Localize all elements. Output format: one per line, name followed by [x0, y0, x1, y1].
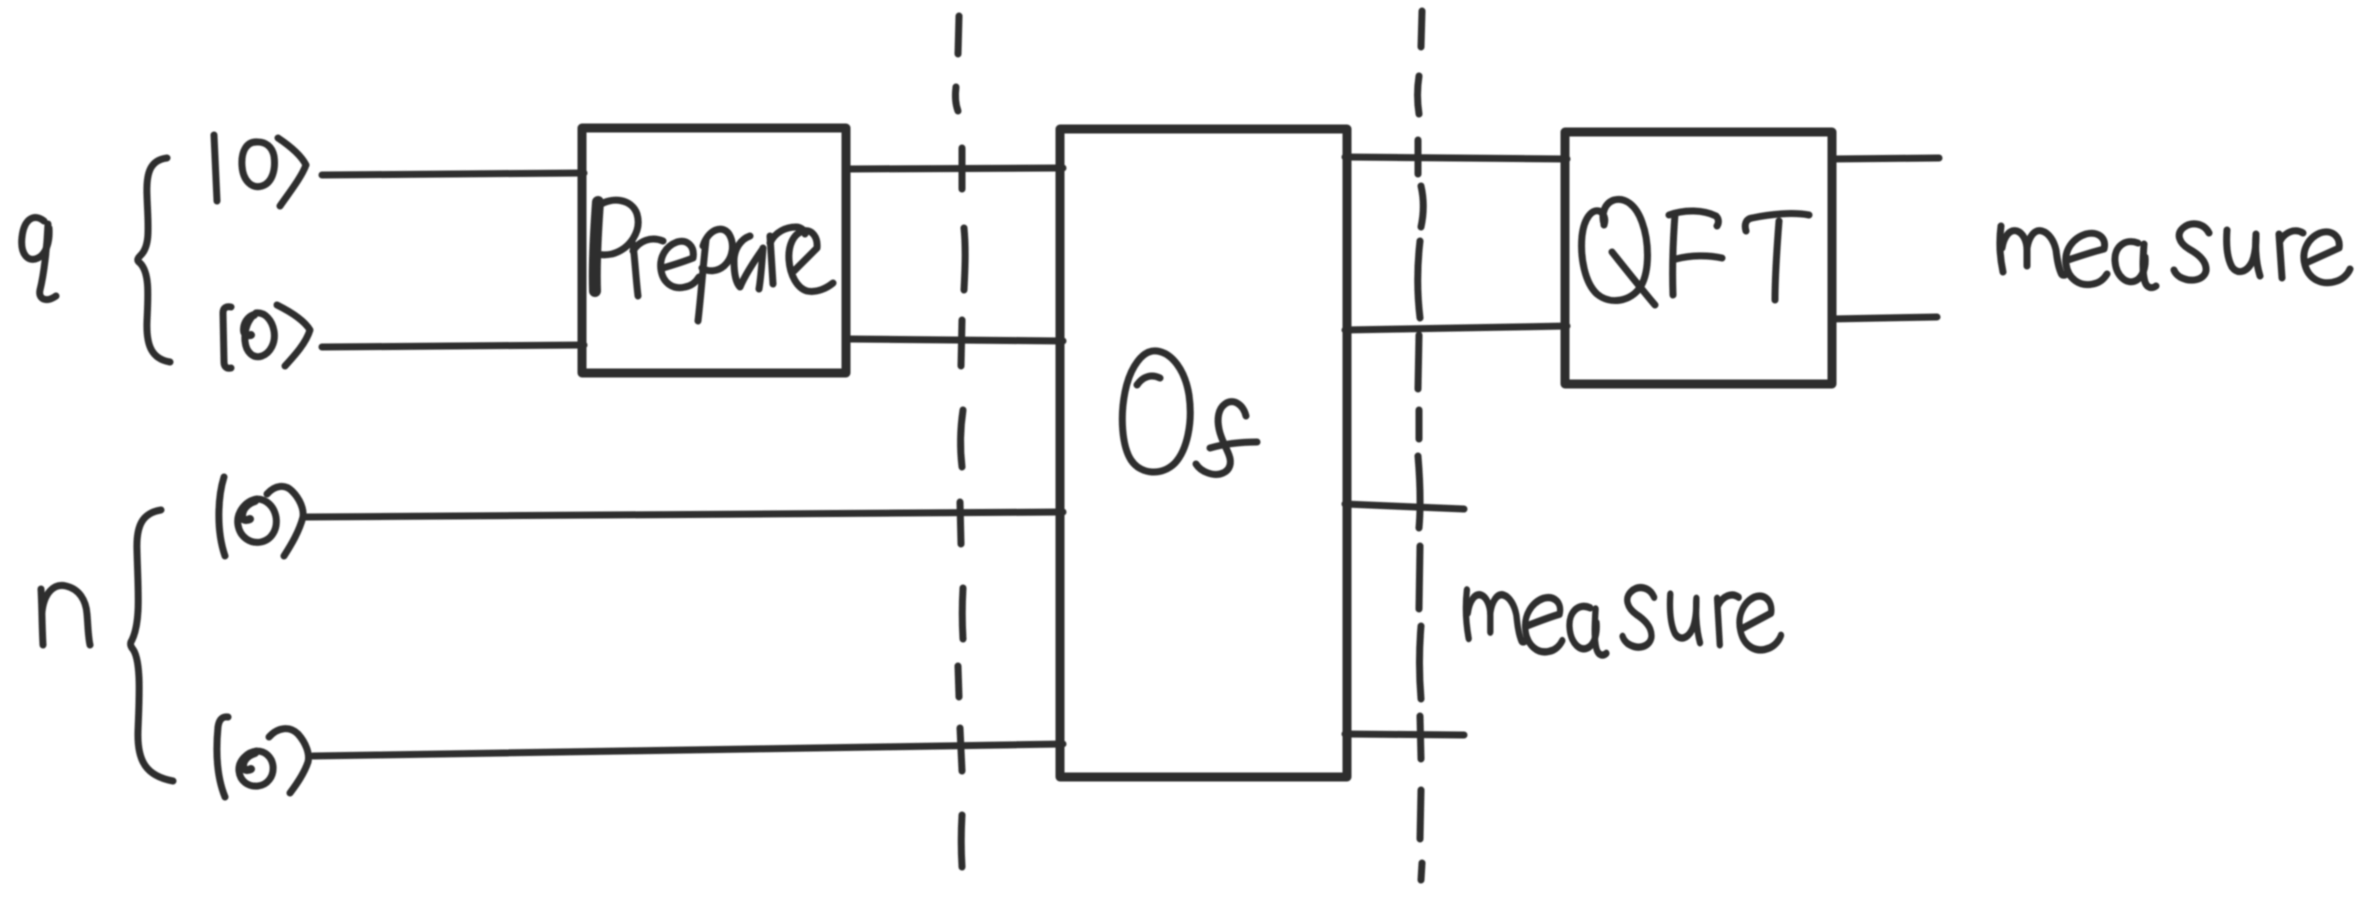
register label q	[22, 218, 56, 300]
gate Prepare label	[595, 200, 833, 321]
ket |0> qubit 2	[223, 305, 310, 368]
wire q2 segment middle	[848, 339, 1063, 341]
brace for register n	[131, 510, 174, 781]
oracle Of label	[1122, 351, 1257, 475]
register label n	[41, 585, 90, 645]
wire n1 segment left	[305, 512, 1063, 517]
wire q1 segment left	[322, 173, 584, 175]
oracle Of box	[1060, 129, 1347, 777]
wire n2 segment left	[313, 744, 1063, 756]
gate Prepare box	[582, 128, 846, 373]
wire q2 segment Of to QFT	[1345, 326, 1567, 330]
wire n2 segment after Of	[1345, 734, 1464, 735]
ket |0> qubit 1	[214, 135, 306, 206]
wire q2 segment after QFT	[1831, 317, 1937, 319]
wire q1 segment middle	[848, 168, 1063, 169]
brace for register q	[138, 158, 170, 362]
wire n1 segment after Of	[1345, 504, 1464, 509]
label measure (middle right)	[1466, 588, 1781, 655]
gate QFT label	[1582, 199, 1809, 305]
barrier 2 dashed line	[1418, 11, 1424, 880]
wire q1 segment Of to QFT	[1345, 157, 1567, 159]
ket |0> qubit 3	[219, 477, 303, 556]
wire q2 segment left	[322, 345, 584, 347]
barrier 1 dashed line	[955, 16, 965, 867]
wire q1 segment after QFT	[1831, 158, 1939, 159]
label measure (top right)	[2000, 224, 2350, 288]
gate QFT box	[1565, 132, 1832, 384]
ket |0> qubit 4	[217, 717, 309, 797]
